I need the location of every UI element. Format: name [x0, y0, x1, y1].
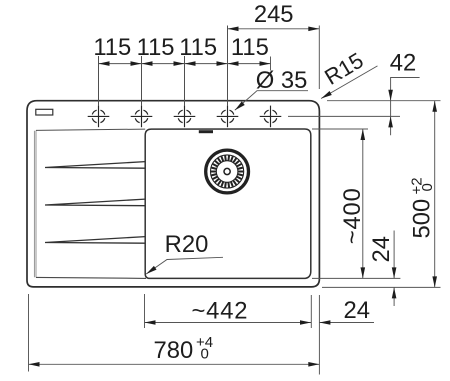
arrowheads 245: [228, 27, 239, 32]
extension line bowl right edge (bottom): [310, 295, 312, 328]
dimension line 780: [29, 363, 320, 365]
arrowheads ~442: [145, 320, 156, 325]
arrowhead R20: [145, 266, 157, 276]
svg-text:780: 780: [154, 337, 194, 364]
extension line sink bottom (right): [322, 286, 441, 288]
svg-text:245: 245: [254, 1, 294, 28]
extension line sink left edge (bottom): [28, 294, 30, 372]
extension line above tap hole at x=270.5: [270, 57, 272, 71]
svg-text:R15: R15: [320, 48, 367, 90]
svg-text:Ø 35: Ø 35: [256, 67, 308, 94]
arrowheads 115 chain: [99, 61, 110, 66]
extension line above tap hole at x=184.5: [184, 56, 186, 106]
arrowheads 42: [388, 90, 393, 101]
svg-text:24: 24: [368, 236, 395, 262]
dim text 500 +2/0 (rotated): [409, 177, 437, 238]
extension line right edge top (for 245): [318, 26, 320, 90]
dimension line 245: [228, 28, 320, 30]
extension line above tap hole at x=98.5: [98, 56, 100, 106]
tap hole 2 (crosshair + dashed circle): [131, 106, 153, 128]
drainboard groove 3: [45, 237, 145, 244]
arrowheads ~400: [361, 129, 366, 140]
bowl outline (R20 corners): [145, 129, 311, 278]
svg-text:~400: ~400: [339, 187, 366, 244]
drainboard groove 2: [45, 199, 145, 206]
drainboard top edge line: [36, 129, 145, 130]
svg-text:42: 42: [390, 50, 416, 77]
leader line R15: [321, 66, 377, 99]
extension line bowl top (right): [312, 128, 368, 130]
extension line bowl bottom (right): [312, 277, 400, 279]
svg-text:115: 115: [231, 34, 269, 61]
arrowheads 780: [29, 362, 40, 367]
extension line tap hole centreline (right): [288, 115, 400, 117]
dimension line 115 chain: [99, 63, 271, 65]
leader line for hole diameter: [235, 91, 308, 111]
dim text ~400 (rotated): [339, 187, 366, 244]
svg-text:115: 115: [93, 34, 131, 61]
svg-text:24: 24: [344, 297, 370, 324]
drain strainer (basket waste): [206, 150, 249, 193]
svg-text:0: 0: [201, 346, 209, 363]
overflow slot mark on bowl top edge: [199, 130, 213, 133]
overflow mark (small rectangle, top-left of rim): [36, 109, 53, 115]
extension line sink right edge (bottom): [318, 295, 320, 375]
arrowheads right 24: [392, 267, 397, 278]
tap hole 3 (crosshair + dashed circle): [174, 106, 196, 128]
arrowhead R15: [320, 91, 332, 100]
arrowheads 500: [432, 101, 437, 112]
dimension line 24 bottom (outside arrow): [319, 322, 374, 324]
drainboard bottom edge line: [36, 277, 146, 278]
svg-text:115: 115: [137, 34, 175, 61]
tap hole 4 (crosshair + dashed circle): [217, 106, 239, 128]
dim text R15 (rotated): [320, 48, 367, 90]
extension line bowl left corner (bottom): [144, 294, 146, 328]
dimension line ~400: [362, 129, 364, 278]
svg-text:~442: ~442: [191, 297, 248, 324]
arrowhead bottom 24: [319, 320, 330, 325]
sink outer outline (780x500, R15 corners): [27, 101, 319, 287]
tap hole 1 (crosshair + dashed circle): [88, 106, 110, 128]
svg-text:500: 500: [409, 199, 436, 239]
leader line R20: [146, 257, 223, 274]
extension line above tap hole at x=141.5: [141, 56, 143, 106]
svg-text:R20: R20: [165, 231, 209, 258]
dimension line 42 (vertical with shelf): [391, 78, 420, 136]
tap hole 5 (crosshair + dashed circle): [260, 106, 282, 128]
dim text 24 right (rotated): [368, 236, 395, 262]
svg-text:115: 115: [179, 34, 217, 61]
drainboard groove 1: [45, 162, 145, 169]
extension line top edge (right): [327, 100, 441, 102]
rim inner edge left (double line): [34, 131, 36, 278]
dimension line ~442: [145, 322, 312, 324]
extension line above tap hole at x=227.5: [227, 26, 229, 107]
dimension line 500: [434, 101, 436, 288]
svg-text:0: 0: [419, 183, 436, 191]
dimension line 24 (right, outside arrows): [393, 231, 395, 307]
arrowhead hole diameter leader: [233, 101, 244, 112]
